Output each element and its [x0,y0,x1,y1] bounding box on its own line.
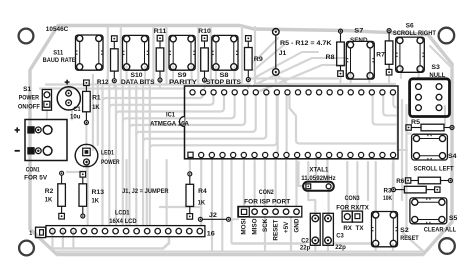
svg-text:J1, J2 = JUMPER: J1, J2 = JUMPER [122,188,169,195]
wire switch and resistor drop segments [114,67,418,89]
svg-text:PARITY: PARITY [169,79,198,86]
label R3 10K [383,188,392,203]
svg-text:FOR 5V: FOR 5V [24,175,48,182]
label S6 SCROLL RIGHT [393,22,436,37]
svg-text:11.0592MHz: 11.0592MHz [301,175,336,182]
note R5 - R12 = 4.7K [280,40,332,47]
label C2 22p [300,238,311,252]
label R8 [326,54,335,61]
svg-text:R1: R1 [92,94,101,101]
svg-text:IC1: IC1 [166,111,175,118]
switch S11 [76,35,104,70]
switch S9 [169,35,195,70]
connector CON1 [25,120,67,161]
svg-text:LED1: LED1 [101,150,114,157]
label R13 1K [92,189,105,205]
svg-text:STOP BITS: STOP BITS [206,79,242,86]
label J1 [279,50,287,57]
svg-text:J1: J1 [279,50,287,57]
board outline edge [30,26,452,255]
connector CON2 ISP [238,206,302,217]
svg-text:C2: C2 [301,238,309,245]
svg-text:CON3: CON3 [345,195,360,202]
resistor R7 [385,29,393,75]
mounting hole bottom-right [439,238,455,254]
svg-text:C3: C3 [336,233,344,240]
resistor R1 [83,80,91,125]
wire nested bends from IC1 pins to LCD columns [103,87,277,226]
resistor R3 [392,186,441,193]
crystal XTAL1 [303,182,334,191]
svg-text:22p: 22p [300,245,311,252]
switch S2 [372,212,398,247]
svg-text:R8: R8 [326,54,335,61]
wire diagonal fan near J1 [254,38,345,91]
label R4 1K [198,188,207,206]
capacitor C2 [310,213,320,245]
switch S1 [42,90,51,111]
svg-text:S3: S3 [431,64,440,71]
switch S5 [410,198,447,224]
svg-text:XTAL1: XTAL1 [309,167,328,174]
labels CON2 pin names [241,218,301,240]
resistor R5 [406,124,454,131]
svg-text:J2: J2 [209,212,217,219]
label pin 16 [207,231,215,238]
resistor R8 [337,29,345,76]
svg-text:BAUD RATE: BAUD RATE [43,57,77,64]
svg-text:TX: TX [356,225,365,232]
label S10 DATA BITS [121,72,155,86]
mounting hole bottom-left [19,241,34,256]
svg-text:S5: S5 [449,215,458,222]
svg-text:S10: S10 [131,72,143,79]
resistor R4 [186,172,194,219]
svg-text:C1: C1 [73,106,81,113]
capacitor C3 [323,213,334,245]
jumper J1 [273,29,280,76]
label XTAL1 11.0592MHz [301,167,336,183]
svg-text:R5 - R12 = 4.7K: R5 - R12 = 4.7K [280,40,332,47]
label RX TX [343,225,364,232]
wire verticals from IC1 to LCD1 [127,158,371,250]
resistor R12 [111,36,119,83]
label S1 POWER ON/OFF [18,86,40,111]
svg-text:S1: S1 [23,86,31,93]
wire left column verticals [93,75,98,150]
label C1 10u [70,106,81,120]
label S9 PARITY [169,72,198,86]
svg-text:R10: R10 [198,28,211,35]
switch S10 [123,35,149,70]
svg-text:ON/OFF: ON/OFF [18,104,40,111]
svg-text:SCROLL RIGHT: SCROLL RIGHT [393,30,436,37]
label S8 STOP BITS [206,72,242,86]
label CON1 minus [15,150,20,152]
switch S3 [410,79,450,117]
label CON2 FOR ISP PORT [244,189,290,205]
label IC1 ATMEGA 16A [150,111,189,127]
svg-text:MOSI: MOSI [241,218,248,234]
svg-text:S11: S11 [53,49,63,56]
svg-text:FOR ISP PORT: FOR ISP PORT [244,199,290,206]
wire horizontal bus under switch row [40,79,395,89]
wire traces inside IC1 footprint [278,95,398,152]
label R9 [254,56,263,63]
svg-text:SEND: SEND [350,37,368,44]
svg-text:S2: S2 [400,227,409,234]
switch S4 [412,134,448,160]
wire verticals from top edge to bus [108,27,255,85]
svg-text:R12: R12 [97,79,109,86]
svg-text:MISO: MISO [252,218,259,234]
svg-text:CON2: CON2 [259,189,274,196]
note J1 J2 jumper [122,188,169,195]
wire right-hand column traces [347,46,452,251]
svg-text:NULL: NULL [429,72,445,79]
resistor R2 [58,171,66,219]
jumper J2 [198,217,230,221]
resistor R10 [201,35,209,82]
svg-text:R5: R5 [411,119,420,126]
label S3 NULL [429,64,445,79]
label R10 [198,28,211,35]
svg-text:R11: R11 [154,28,167,35]
svg-text:10u: 10u [70,113,81,120]
label S5 CLEAR ALL [424,215,458,234]
svg-text:CLEAR ALL: CLEAR ALL [424,227,457,234]
mounting hole top-right [439,28,455,44]
connector CON3 [342,211,362,222]
label LCD1 16X4 LCD [109,210,137,225]
label pin 1 [29,230,32,237]
label R12 [97,79,109,86]
svg-text:CON1: CON1 [26,166,40,173]
label CON3 FOR RX/TX [336,195,369,211]
resistor R13 [79,172,87,219]
svg-text:S4: S4 [448,153,457,160]
label S11 BAUD RATE [43,49,77,63]
svg-text:S8: S8 [220,72,229,79]
svg-text:R7: R7 [376,51,385,58]
wire CON2 feed columns [244,161,297,250]
svg-text:RESET: RESET [400,235,419,242]
label S4 SCROLL LEFT [414,153,457,173]
label S2 RESET [400,227,419,242]
op-amp U1 / microcontroller IC1 ATMEGA 16A [180,86,399,159]
label R2 1K [45,188,54,204]
label LED1 POWER [101,150,120,166]
label CON1 plus [15,127,20,132]
svg-text:LCD1: LCD1 [115,210,130,217]
svg-text:RESET: RESET [273,219,280,240]
capacitor C1 [57,80,80,110]
svg-text:SCK: SCK [262,218,269,232]
svg-text:POWER: POWER [101,159,120,166]
switch S8 [212,35,238,70]
svg-text:1: 1 [29,230,32,237]
svg-text:ATMEGA 16A: ATMEGA 16A [150,120,189,127]
svg-text:DATA BITS: DATA BITS [121,79,155,86]
board number 10546C [46,26,69,33]
connector LCD1 16X4 LCD [36,226,205,238]
resistor R6 [405,177,452,184]
label R7 [376,51,385,58]
svg-text:FOR RX/TX: FOR RX/TX [336,204,369,211]
svg-text:S6: S6 [406,22,414,29]
mounting hole top-left [19,29,34,44]
resistor R9 [245,36,253,82]
svg-text:16X4 LCD: 16X4 LCD [109,218,137,225]
switch S7 [346,41,374,79]
label J2 [209,212,217,219]
svg-text:R3: R3 [384,188,392,195]
svg-text:22p: 22p [335,244,346,251]
LED1 [75,144,98,166]
svg-text:10K: 10K [383,195,392,202]
svg-text:R2: R2 [45,188,54,195]
switch S6 [396,37,425,72]
svg-text:RX: RX [343,225,352,232]
svg-text:S7: S7 [354,28,363,35]
label R1 1K [92,94,101,110]
wire bottom-left fan under LCD1 [53,232,170,249]
svg-text:10546C: 10546C [46,26,69,33]
svg-text:1K: 1K [92,104,100,111]
svg-text:R13: R13 [92,189,105,196]
svg-text:SCROLL LEFT: SCROLL LEFT [414,166,454,173]
svg-text:16: 16 [207,231,215,238]
resistor R11 [156,35,164,82]
svg-text:R9: R9 [254,56,263,63]
label CON1 FOR 5V [24,166,48,181]
svg-text:1K: 1K [45,197,53,204]
label R5 [411,119,420,126]
svg-text:GND: GND [294,218,301,232]
wire crystal and capacitor feeds [299,158,369,252]
label C3 22p [335,233,346,251]
svg-text:1K: 1K [92,198,100,205]
label S7 SEND [350,28,368,44]
svg-text:R4: R4 [198,188,207,195]
wire CON1 S1 LED local traces [47,85,238,226]
svg-text:S9: S9 [178,72,187,79]
svg-text:R6: R6 [396,178,404,185]
svg-text:1K: 1K [198,199,206,206]
svg-text:POWER: POWER [19,95,40,102]
label R6 [396,178,404,185]
label R11 [154,28,167,35]
svg-text:+5V: +5V [283,221,290,233]
